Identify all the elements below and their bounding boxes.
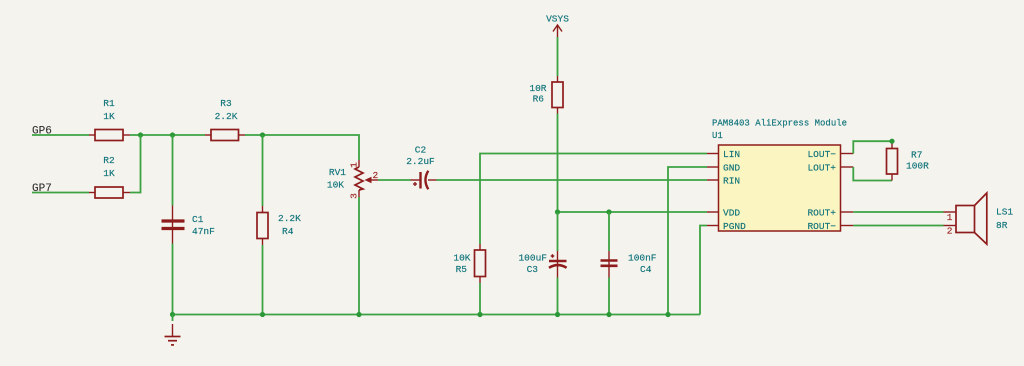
svg-text:2.2K: 2.2K — [215, 111, 238, 122]
svg-text:2.2K: 2.2K — [278, 213, 301, 224]
pin RIN — [707, 179, 719, 181]
svg-text:PGND: PGND — [723, 221, 746, 232]
svg-text:GND: GND — [723, 163, 740, 174]
wire RV1 pin3 to bus — [358, 197, 360, 315]
junction bus C3 — [555, 312, 560, 317]
junction bus R5 — [477, 312, 482, 317]
svg-text:PAM8403 AliExpress Module: PAM8403 AliExpress Module — [712, 119, 847, 129]
svg-text:RV1: RV1 — [329, 167, 346, 178]
svg-text:1: 1 — [947, 212, 953, 223]
wire C1 bottom — [172, 244, 174, 315]
svg-text:1K: 1K — [103, 168, 115, 179]
resistor R2 — [89, 155, 130, 198]
pin ROUT- — [840, 225, 853, 227]
wire ground stem — [172, 315, 174, 322]
wire LOUT+ to R7 bottom — [853, 167, 892, 181]
svg-text:2: 2 — [947, 226, 953, 237]
LS1 pin 2 — [944, 225, 957, 227]
junction VDD at R6 — [555, 209, 560, 214]
pin PGND — [707, 225, 719, 227]
wire RV1 wiper to C2 — [378, 179, 411, 181]
C2 polarity plus — [413, 183, 417, 185]
wire LOUT- to R7 top — [853, 141, 892, 153]
speaker LS1 — [944, 193, 1014, 244]
wire PGND to bus — [700, 226, 707, 315]
resistor R6 — [529, 76, 563, 114]
junction bus C4 — [606, 312, 611, 317]
wire VDD — [558, 211, 708, 213]
svg-text:1: 1 — [348, 162, 359, 168]
svg-text:C2: C2 — [415, 145, 427, 156]
svg-text:VSYS: VSYS — [546, 14, 569, 25]
svg-text:100nF: 100nF — [628, 253, 657, 264]
wire ROUT- to speaker — [853, 225, 943, 227]
svg-text:C1: C1 — [192, 214, 204, 225]
svg-text:ROUT−: ROUT− — [807, 221, 836, 232]
svg-text:LS1: LS1 — [996, 206, 1013, 217]
svg-text:VDD: VDD — [723, 208, 740, 219]
capacitor C1 — [162, 206, 216, 244]
svg-text:R3: R3 — [220, 98, 232, 109]
wire GP6 to R1 — [32, 134, 89, 136]
LS1 pin 1 — [944, 211, 957, 213]
resistor R4 — [257, 206, 301, 245]
svg-text:R4: R4 — [282, 226, 294, 237]
svg-text:R1: R1 — [103, 98, 115, 109]
svg-text:8R: 8R — [996, 220, 1008, 231]
wire C4 to bus — [608, 278, 610, 315]
resistor R7 — [887, 141, 930, 180]
svg-text:10K: 10K — [453, 253, 470, 264]
wire R1 to R3 — [130, 134, 205, 136]
svg-text:R6: R6 — [533, 94, 545, 105]
svg-text:R5: R5 — [456, 264, 468, 275]
svg-text:LOUT+: LOUT+ — [807, 163, 836, 174]
svg-text:R7: R7 — [911, 150, 922, 161]
ground — [165, 324, 181, 345]
capacitor C3 — [518, 251, 566, 278]
pin LIN — [707, 153, 719, 155]
wire R5 to bus — [479, 283, 481, 315]
pin VDD — [707, 211, 719, 213]
junction R7 top — [889, 139, 894, 144]
wire ROUT+ to speaker — [853, 211, 943, 213]
svg-text:2.2uF: 2.2uF — [406, 156, 435, 167]
junction at R2 branch — [138, 132, 143, 137]
svg-text:ROUT+: ROUT+ — [807, 208, 836, 219]
wire GND pin to bus — [668, 167, 707, 315]
svg-text:RIN: RIN — [723, 176, 740, 187]
RV1 wiper pin 2 — [371, 179, 378, 181]
wire R3 to RV1 — [245, 135, 359, 160]
junction bus GND — [665, 312, 670, 317]
svg-text:100R: 100R — [906, 161, 929, 172]
junction at R4 branch — [260, 132, 265, 137]
C3 polarity plus — [551, 255, 555, 257]
svg-text:2: 2 — [373, 170, 379, 181]
svg-text:1K: 1K — [103, 111, 115, 122]
wire R4 bottom — [262, 245, 264, 315]
svg-text:10K: 10K — [327, 180, 344, 191]
svg-text:10R: 10R — [529, 83, 546, 94]
junction at C1 branch — [170, 132, 175, 137]
junction bus C1 — [170, 312, 175, 317]
capacitor C4 — [601, 251, 657, 278]
svg-text:LIN: LIN — [723, 149, 740, 160]
pin LOUT+ — [840, 166, 853, 168]
svg-text:U1: U1 — [712, 131, 723, 141]
junction bus RV1 — [356, 312, 361, 317]
wire ground bus — [173, 314, 701, 316]
svg-text:3: 3 — [348, 193, 359, 199]
pin LOUT- — [840, 153, 853, 155]
resistor R5 — [453, 244, 485, 283]
pin GND — [707, 166, 719, 168]
svg-text:47nF: 47nF — [192, 226, 215, 237]
wire C2 to RIN — [437, 179, 708, 181]
wire R6 down to VDD node — [557, 114, 559, 213]
junction bus R4 — [260, 312, 265, 317]
wire R4 top — [262, 135, 264, 206]
wire VDD node to C3 — [557, 212, 559, 251]
wire GP7 to R2 — [32, 192, 89, 194]
svg-text:R2: R2 — [103, 155, 115, 166]
capacitor C2 — [406, 145, 436, 190]
resistor R3 — [205, 98, 245, 141]
svg-text:C4: C4 — [640, 264, 652, 275]
resistor R1 — [89, 98, 130, 141]
potentiometer RV1 — [327, 160, 379, 199]
wire R2 up to GP6 net — [130, 135, 141, 193]
junction VDD at C4 — [606, 209, 611, 214]
svg-text:C3: C3 — [527, 264, 539, 275]
svg-text:LOUT−: LOUT− — [807, 149, 836, 160]
wire C1 top — [172, 135, 174, 206]
wire VDD node to C4 — [608, 212, 610, 251]
pin ROUT+ — [840, 211, 853, 213]
wire VSYS to R6 — [557, 37, 559, 76]
op-amp module U1 PAM8403 — [707, 119, 853, 233]
power VSYS — [546, 14, 569, 38]
svg-text:100uF: 100uF — [518, 253, 547, 264]
wire C3 to bus — [557, 278, 559, 315]
wire LIN net — [480, 154, 707, 245]
